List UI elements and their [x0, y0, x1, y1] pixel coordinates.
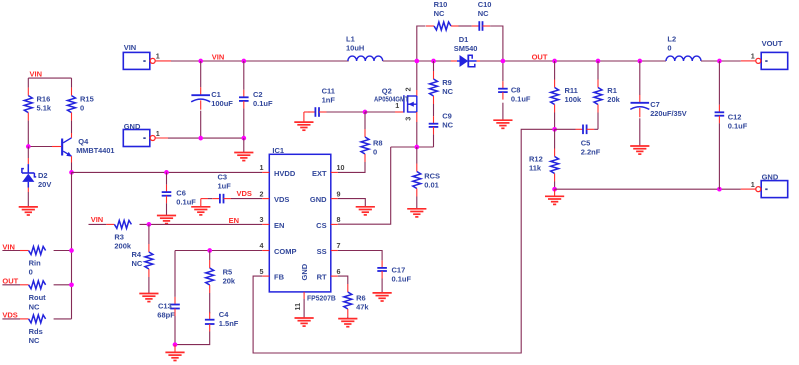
wire to R16 — [27, 78, 29, 88]
ground R12 — [554, 189, 556, 196]
ground C6 — [157, 215, 176, 217]
pin 6 RT IC1 — [331, 275, 338, 277]
capacitor C2 — [243, 90, 245, 98]
wire to R15 — [71, 78, 73, 88]
wire HVDD row — [72, 171, 263, 173]
svg-text:1: 1 — [395, 101, 399, 110]
wire left rail — [71, 172, 73, 319]
svg-text:R3: R3 — [114, 232, 124, 241]
resistor Rin — [28, 250, 30, 252]
svg-text:R15: R15 — [80, 95, 94, 104]
wire C12 to bottom rail — [718, 123, 720, 189]
svg-text:6: 6 — [337, 267, 341, 276]
svg-text:0.1uF: 0.1uF — [392, 274, 412, 283]
svg-text:0.1uF: 0.1uF — [176, 198, 196, 207]
transistor Q2 AP0504GMT — [395, 111, 404, 113]
wire L2 to VOUT — [701, 60, 741, 62]
svg-text:COMP: COMP — [274, 247, 297, 256]
diode D1 SM540 schottky — [451, 60, 457, 62]
wire C8 to ground — [502, 103, 504, 121]
svg-text:R5: R5 — [223, 267, 233, 276]
wire node to RCS — [416, 147, 418, 164]
svg-text:9: 9 — [337, 189, 341, 198]
svg-text:L1: L1 — [346, 34, 355, 43]
svg-text:IC1: IC1 — [272, 146, 284, 155]
wire Q4 emitter to HVDD row — [71, 163, 73, 173]
svg-text:1: 1 — [156, 129, 160, 138]
svg-text:10uH: 10uH — [346, 43, 364, 52]
ground C8 — [493, 119, 512, 121]
wire R5 to C4 — [209, 293, 211, 313]
wire node to R5 — [209, 251, 211, 261]
svg-text:RCS: RCS — [424, 172, 440, 181]
wire R6 to ground — [347, 317, 349, 319]
svg-text:VIN: VIN — [212, 52, 225, 61]
svg-text:68pF: 68pF — [157, 311, 175, 320]
ground C13 — [174, 345, 176, 353]
wire Rout stub — [2, 284, 20, 286]
wire C11 ground stub — [304, 111, 310, 113]
wire R12 to bottom rail — [554, 182, 556, 190]
svg-text:1: 1 — [751, 52, 755, 61]
resistor R16 — [27, 88, 29, 96]
svg-text:C12: C12 — [728, 112, 742, 121]
node C13 bottom — [173, 342, 178, 347]
svg-text:C9: C9 — [442, 111, 452, 120]
wire snubber left — [417, 26, 426, 61]
wire R9 to C9 — [433, 104, 435, 116]
svg-text:5: 5 — [260, 267, 264, 276]
wire rail to C2 — [243, 61, 245, 90]
wire R15 to Q4 collector — [71, 121, 73, 133]
svg-text:R12: R12 — [529, 155, 543, 164]
svg-text:EXT: EXT — [312, 169, 327, 178]
svg-text:C5: C5 — [581, 138, 591, 147]
resistor R4 — [148, 244, 150, 252]
wire switch node down to Q2 drain — [416, 61, 418, 90]
svg-text:SS: SS — [317, 247, 327, 256]
capacitor C9 — [433, 116, 435, 124]
svg-text:NC: NC — [132, 259, 143, 268]
svg-text:C4: C4 — [219, 310, 229, 319]
wire rail to R11 — [554, 61, 556, 80]
resistor R12 — [554, 149, 556, 157]
wire COMP row — [175, 250, 262, 252]
svg-text:VDS: VDS — [274, 195, 289, 204]
svg-text:Rds: Rds — [29, 327, 43, 336]
svg-text:EN: EN — [274, 221, 284, 230]
svg-text:11: 11 — [293, 303, 302, 311]
svg-text:0.01: 0.01 — [424, 181, 439, 190]
svg-text:3: 3 — [404, 117, 413, 121]
svg-text:0.1uF: 0.1uF — [253, 99, 273, 108]
capacitor C5 — [576, 128, 584, 130]
node C12 bottom — [717, 187, 722, 192]
ground R4 — [139, 293, 158, 295]
svg-text:GND: GND — [124, 122, 141, 131]
pin 8 CS IC1 — [331, 223, 338, 225]
svg-text:R6: R6 — [356, 294, 366, 303]
node C1 bottom — [198, 136, 203, 141]
svg-text:HVDD: HVDD — [274, 169, 296, 178]
wire rail to C7 — [639, 61, 641, 95]
svg-text:100k: 100k — [565, 95, 583, 104]
wire C7 to ground — [639, 118, 641, 146]
pin 3 EN IC1 — [262, 223, 269, 225]
wire bottom GND rail — [555, 188, 741, 190]
svg-text:0: 0 — [80, 104, 84, 113]
svg-text:C8: C8 — [511, 86, 521, 95]
wire R8 to EXT pin 10 — [338, 162, 365, 172]
resistor R3 — [113, 223, 115, 225]
ground input rail — [234, 152, 253, 154]
wire C1 to gnd rail — [200, 111, 202, 138]
svg-text:10: 10 — [337, 163, 345, 172]
wire Rds stub — [2, 318, 20, 320]
svg-text:8: 8 — [337, 215, 341, 224]
wire OUT rail — [480, 60, 666, 62]
ground pin 11 — [295, 317, 314, 319]
svg-text:R16: R16 — [37, 95, 51, 104]
svg-text:GND: GND — [762, 172, 779, 181]
wire R11 to node — [554, 113, 556, 130]
svg-text:NC: NC — [442, 120, 453, 129]
connector J VIN — [123, 52, 150, 69]
ground C3 — [200, 199, 202, 207]
svg-text:5.1k: 5.1k — [37, 104, 52, 113]
svg-text:MMBT4401: MMBT4401 — [76, 146, 114, 155]
svg-text:7: 7 — [337, 241, 341, 250]
wire C2 to gnd rail — [243, 108, 245, 138]
resistor R9 — [433, 71, 435, 79]
wire C13 to bottom — [174, 316, 176, 345]
ground C17 — [373, 292, 392, 294]
svg-text:D1: D1 — [459, 35, 469, 44]
svg-text:0.1uF: 0.1uF — [728, 121, 748, 130]
wire C11 to gate node — [327, 111, 366, 113]
inductor L1 — [348, 56, 383, 61]
resistor R5 — [209, 260, 211, 268]
node C2 top — [241, 59, 246, 64]
ground C7 — [630, 145, 649, 147]
resistor R1 — [597, 80, 599, 88]
node R5 top — [207, 248, 212, 253]
wire OUT to C8 — [502, 61, 504, 81]
svg-text:D2: D2 — [38, 171, 48, 180]
node HVDD left — [69, 170, 74, 175]
wire Q4 base — [28, 146, 52, 148]
wire R16 to node — [27, 121, 29, 147]
wire rail to C1 — [200, 61, 202, 87]
wire snubber right — [490, 26, 503, 61]
wire C17 to ground — [381, 279, 383, 293]
svg-text:C6: C6 — [176, 189, 186, 198]
node Rin — [69, 248, 74, 253]
pin 4 COMP IC1 — [262, 250, 269, 252]
svg-text:VDS: VDS — [237, 189, 252, 198]
wire R4 to ground — [148, 277, 150, 294]
svg-text:RT: RT — [317, 273, 327, 282]
svg-text:R10: R10 — [434, 0, 448, 9]
svg-text:0: 0 — [667, 44, 671, 53]
svg-text:CS: CS — [316, 221, 326, 230]
svg-text:C13: C13 — [158, 302, 172, 311]
node C1 top — [198, 59, 203, 64]
ground D2 — [19, 206, 38, 208]
wire VIN stub R3 — [89, 223, 107, 225]
svg-text:3: 3 — [260, 215, 264, 224]
svg-text:NC: NC — [478, 9, 489, 18]
svg-text:NC: NC — [442, 87, 453, 96]
svg-text:EN: EN — [229, 216, 239, 225]
wire EN row — [140, 223, 263, 225]
wire VIN rail — [171, 60, 349, 62]
pin 10 EXT IC1 — [331, 171, 338, 173]
svg-text:C7: C7 — [650, 100, 660, 109]
node R11 top — [552, 59, 557, 64]
wire Rin to rail — [54, 250, 72, 252]
svg-text:VOUT: VOUT — [762, 39, 783, 48]
wire C9 to source row — [433, 134, 435, 147]
svg-text:VIN: VIN — [91, 215, 104, 224]
node C8 — [501, 59, 506, 64]
svg-text:GND: GND — [310, 195, 327, 204]
svg-text:1: 1 — [156, 52, 160, 61]
wire pin 11 to ground — [303, 299, 305, 318]
wire FB feedback loop — [253, 129, 554, 353]
resistor R8 — [364, 129, 366, 137]
svg-text:1nF: 1nF — [322, 95, 336, 104]
wire C13 branch — [174, 251, 176, 297]
wire pin 9 to ground — [338, 199, 366, 207]
wire Q2 source down — [416, 122, 418, 147]
wire C6 branch — [166, 172, 168, 184]
svg-text:0.1uF: 0.1uF — [511, 95, 531, 104]
svg-text:R11: R11 — [565, 86, 578, 95]
wire Rout to rail — [54, 284, 72, 286]
wire D2 to ground — [27, 192, 29, 207]
node FB divider — [552, 127, 557, 132]
svg-text:C3: C3 — [218, 173, 228, 182]
capacitor C13 — [174, 297, 176, 305]
node Rout — [69, 282, 74, 287]
svg-text:C10: C10 — [478, 0, 492, 9]
wire gnd rail — [168, 137, 244, 139]
svg-text:AP0504GMT: AP0504GMT — [374, 95, 409, 104]
resistor Rout — [28, 284, 30, 286]
pin 5 FB IC1 — [262, 275, 269, 277]
svg-text:OUT: OUT — [532, 52, 548, 61]
resistor R10 — [426, 25, 434, 27]
resistor RCS — [416, 164, 418, 172]
wire R10 to C10 — [459, 25, 472, 27]
svg-text:2.2nF: 2.2nF — [581, 147, 601, 156]
svg-text:C11: C11 — [322, 86, 335, 95]
node C7 top — [637, 59, 642, 64]
wire RCS to ground — [416, 197, 418, 209]
ground RCS — [407, 208, 426, 210]
wire RT to R6 — [338, 276, 348, 284]
wire R1 down — [597, 113, 599, 130]
svg-text:1.5nF: 1.5nF — [219, 319, 239, 328]
wire SS to C17 — [338, 251, 382, 261]
node C6 top — [164, 170, 169, 175]
wire C4 to bottom row — [175, 332, 210, 345]
node C12 top — [717, 59, 722, 64]
ground pin 9 — [356, 206, 375, 208]
wire node to R4 — [148, 224, 150, 244]
inductor L2 — [666, 56, 701, 61]
svg-text:FB: FB — [274, 273, 285, 282]
svg-text:2: 2 — [404, 87, 413, 91]
ground C11 — [303, 112, 305, 122]
transistor Q4 MMBT4401 — [71, 133, 73, 138]
capacitor C8 — [502, 81, 504, 89]
svg-text:1uF: 1uF — [218, 182, 232, 191]
connector J GND output — [761, 181, 788, 198]
svg-text:Rin: Rin — [29, 259, 41, 268]
svg-text:NC: NC — [29, 336, 40, 345]
wire Rds to rail — [54, 318, 72, 320]
node D2 junction — [26, 144, 31, 149]
svg-text:R4: R4 — [132, 250, 142, 259]
svg-text:0: 0 — [29, 268, 33, 277]
wire node to D1 anode — [417, 60, 451, 62]
wire C5 to R1 — [594, 128, 598, 130]
connector J VOUT — [761, 52, 788, 69]
ground R6 — [338, 318, 357, 320]
svg-text:4: 4 — [260, 241, 264, 250]
svg-text:C17: C17 — [392, 265, 406, 274]
svg-text:R1: R1 — [607, 86, 617, 95]
svg-text:R8: R8 — [373, 138, 383, 147]
svg-text:R9: R9 — [442, 78, 452, 87]
svg-text:0: 0 — [373, 147, 377, 156]
capacitor C1 — [200, 87, 202, 95]
resistor R11 — [554, 80, 556, 88]
resistor R15 — [71, 88, 73, 96]
wire node to Q2 gate — [365, 111, 395, 113]
node C2 bottom — [241, 136, 246, 141]
capacitor C10 — [472, 25, 480, 27]
svg-text:2: 2 — [260, 189, 264, 198]
svg-text:SM540: SM540 — [454, 44, 478, 53]
pin 1 HVDD IC1 — [262, 171, 269, 173]
svg-text:VIN: VIN — [30, 69, 43, 78]
svg-text:NC: NC — [434, 9, 445, 18]
wire gnd rail down — [243, 138, 245, 152]
node source junction — [414, 145, 419, 150]
node R9 junction — [431, 59, 436, 64]
node gate junction — [363, 110, 368, 115]
pin 9 GND IC1 — [331, 198, 338, 200]
pin 7 SS IC1 — [331, 250, 338, 252]
capacitor C11 — [308, 111, 316, 113]
capacitor C17 — [381, 260, 383, 268]
pin 2 VDS IC1 — [262, 198, 269, 200]
pin 11 GND IC1 — [303, 292, 305, 299]
svg-text:20k: 20k — [607, 95, 620, 104]
capacitor C4 — [209, 312, 211, 320]
svg-text:20k: 20k — [223, 276, 236, 285]
diode D2 zener 20V — [27, 147, 29, 159]
svg-text:C1: C1 — [211, 90, 221, 99]
svg-text:L2: L2 — [667, 35, 676, 44]
wire node to C5 — [555, 128, 576, 130]
wire L1 to switch node — [383, 60, 417, 62]
wire node to R8 — [364, 112, 366, 129]
svg-text:11k: 11k — [529, 164, 542, 173]
wire R16-R15 top rail — [28, 77, 71, 79]
wire CS to pin 8 — [338, 147, 391, 224]
svg-text:Q4: Q4 — [78, 137, 89, 146]
op-amp U IC1 FP5207B box — [269, 154, 331, 292]
wire Rin stub — [2, 250, 20, 252]
wire rail to C12 — [718, 61, 720, 105]
svg-text:1: 1 — [260, 163, 264, 172]
wire node to R9 — [433, 61, 435, 71]
wire source junction row — [391, 146, 434, 148]
node R1 top — [596, 59, 601, 64]
capacitor C3 — [212, 198, 220, 200]
resistor Rds — [28, 318, 30, 320]
connector J GND input — [123, 130, 150, 147]
node R12 bottom — [552, 187, 557, 192]
svg-text:FP5207B: FP5207B — [307, 293, 336, 302]
wire rail to R1 — [597, 61, 599, 80]
svg-text:1: 1 — [751, 180, 755, 189]
svg-text:100uF: 100uF — [211, 99, 233, 108]
svg-text:Rout: Rout — [29, 293, 47, 302]
svg-text:VIN: VIN — [124, 43, 137, 52]
wire C3 ground corner — [201, 198, 208, 200]
resistor R6 — [347, 284, 349, 292]
node R4 top — [147, 222, 152, 227]
capacitor C7 — [639, 95, 641, 103]
wire node to R12 — [554, 129, 556, 148]
svg-text:GND: GND — [300, 263, 309, 280]
svg-text:NC: NC — [29, 302, 40, 311]
wire C3 to VDS pin — [231, 198, 262, 200]
node switch junction — [414, 59, 419, 64]
svg-text:C2: C2 — [253, 90, 263, 99]
svg-text:200k: 200k — [114, 241, 132, 250]
svg-text:20V: 20V — [38, 180, 51, 189]
svg-text:220uF/35V: 220uF/35V — [650, 109, 687, 118]
capacitor C12 — [718, 105, 720, 113]
wire C6 to ground — [166, 203, 168, 215]
capacitor C6 — [166, 185, 168, 193]
svg-text:47k: 47k — [356, 303, 369, 312]
